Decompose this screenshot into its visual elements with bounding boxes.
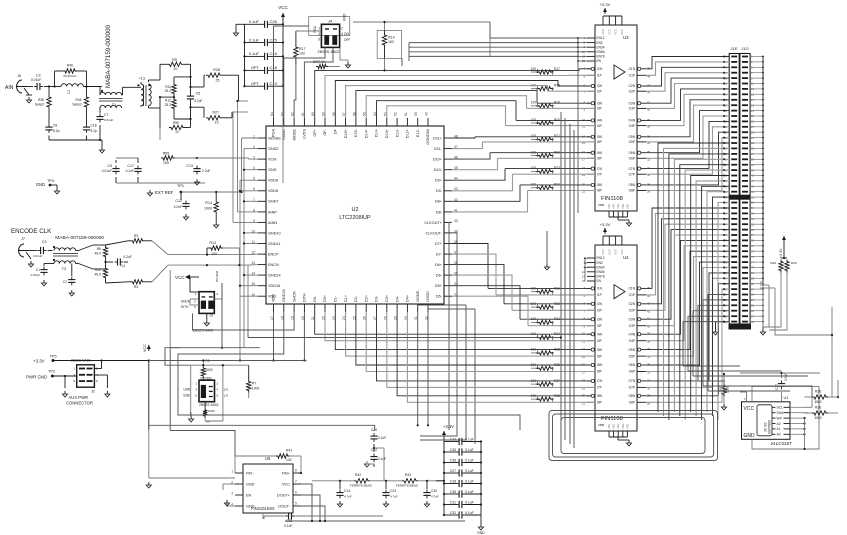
- svg-text:GND11: GND11: [268, 242, 280, 246]
- svg-text:100: 100: [531, 134, 537, 138]
- svg-text:4.7uF: 4.7uF: [390, 495, 398, 499]
- svg-text:T1: T1: [112, 103, 116, 107]
- svg-text:O3P: O3P: [629, 107, 635, 111]
- svg-text:VDD6: VDD6: [268, 189, 278, 193]
- svg-text:O5P: O5P: [629, 354, 635, 358]
- svg-text:VCC: VCC: [607, 28, 611, 35]
- svg-text:I8N: I8N: [597, 394, 603, 398]
- svg-text:VEE: VEE: [616, 204, 620, 209]
- svg-text:DOUT+: DOUT+: [277, 493, 291, 497]
- svg-text:EN: EN: [246, 493, 252, 497]
- svg-text:100E: 100E: [726, 386, 730, 393]
- svg-text:49: 49: [425, 112, 429, 116]
- svg-text:R41: R41: [286, 449, 292, 453]
- svg-text:D1-: D1-: [334, 295, 338, 302]
- svg-text:14: 14: [582, 347, 586, 351]
- svg-text:O5N: O5N: [628, 135, 635, 139]
- svg-text:14: 14: [582, 134, 586, 138]
- svg-text:D10+: D10+: [433, 158, 443, 162]
- svg-text:VDD6: VDD6: [268, 179, 278, 183]
- svg-text:O3N: O3N: [628, 101, 635, 105]
- svg-text:TP4: TP4: [47, 179, 54, 183]
- svg-text:VCC: VCC: [282, 482, 290, 486]
- svg-text:VEE: VEE: [621, 424, 625, 429]
- svg-text:OF-: OF-: [323, 128, 327, 135]
- svg-text:4: 4: [341, 32, 343, 36]
- svg-text:D13-: D13-: [395, 128, 399, 137]
- svg-text:O6N: O6N: [628, 151, 635, 155]
- svg-text:EN34: EN34: [597, 265, 605, 269]
- svg-text:VEE: VEE: [612, 424, 616, 429]
- svg-text:3: 3: [231, 492, 233, 496]
- svg-text:0.01uF: 0.01uF: [104, 118, 114, 122]
- svg-text:C4: C4: [121, 264, 125, 268]
- svg-text:EN56: EN56: [597, 50, 605, 54]
- svg-text:ENCP: ENCP: [268, 253, 279, 257]
- svg-text:C14: C14: [344, 489, 350, 493]
- svg-text:EN78: EN78: [597, 55, 605, 59]
- svg-text:5: 5: [318, 38, 320, 42]
- svg-text:C8: C8: [53, 124, 57, 128]
- svg-text:18: 18: [582, 378, 586, 382]
- svg-text:FERRITE BEAD: FERRITE BEAD: [350, 484, 373, 488]
- svg-text:0.1uF: 0.1uF: [465, 511, 474, 515]
- svg-text:O6N: O6N: [628, 363, 635, 367]
- svg-text:36: 36: [647, 134, 651, 138]
- svg-text:GND7: GND7: [268, 200, 279, 204]
- svg-text:1: 1: [318, 27, 320, 31]
- svg-text:R29: R29: [770, 261, 776, 265]
- svg-text:10: 10: [173, 67, 177, 71]
- svg-text:D3+: D3+: [385, 294, 389, 302]
- svg-text:0.1uF: 0.1uF: [378, 457, 386, 461]
- svg-text:O4P: O4P: [629, 124, 635, 128]
- svg-text:OFF: OFF: [344, 38, 350, 42]
- svg-text:R8: R8: [206, 420, 210, 424]
- svg-text:R42: R42: [355, 473, 361, 477]
- svg-text:+3.3V: +3.3V: [600, 222, 611, 227]
- svg-text:TP1: TP1: [177, 184, 184, 188]
- svg-text:C36: C36: [450, 458, 456, 462]
- svg-text:GND18: GND18: [282, 289, 286, 302]
- svg-text:O7N: O7N: [628, 379, 635, 383]
- svg-text:C30: C30: [431, 489, 437, 493]
- svg-text:FERRITE BEAD: FERRITE BEAD: [396, 484, 419, 488]
- svg-text:SHDN: SHDN: [181, 300, 191, 304]
- svg-text:ENCN: ENCN: [268, 263, 279, 267]
- svg-text:OGND60: OGND60: [426, 129, 430, 145]
- svg-text:U2: U2: [351, 207, 358, 213]
- svg-text:I5P: I5P: [597, 140, 602, 144]
- svg-text:O4N: O4N: [628, 332, 635, 336]
- svg-text:I5P: I5P: [597, 354, 602, 358]
- svg-text:D14-: D14-: [375, 128, 379, 137]
- svg-text:D12+: D12+: [406, 128, 410, 138]
- svg-text:U1: U1: [784, 395, 790, 400]
- svg-text:D2-: D2-: [354, 295, 358, 302]
- svg-text:C34: C34: [450, 437, 456, 441]
- svg-text:VCC: VCC: [744, 406, 755, 412]
- svg-text:2BS2S-9A02: 2BS2S-9A02: [318, 50, 340, 54]
- svg-text:J1E: J1E: [731, 46, 738, 51]
- svg-text:100: 100: [531, 101, 537, 105]
- svg-text:EN2: EN2: [597, 41, 603, 45]
- svg-text:R5: R5: [206, 359, 210, 363]
- svg-text:39: 39: [647, 332, 651, 336]
- svg-text:C17: C17: [127, 164, 134, 168]
- svg-text:O8P: O8P: [629, 189, 635, 193]
- svg-text:I8P: I8P: [597, 189, 602, 193]
- svg-text:50: 50: [414, 112, 418, 116]
- svg-text:I4N: I4N: [597, 332, 603, 336]
- svg-text:DITH: DITH: [181, 305, 189, 309]
- svg-text:C2: C2: [36, 74, 41, 78]
- svg-text:WP: WP: [777, 416, 783, 420]
- svg-text:R14: R14: [205, 201, 212, 205]
- svg-text:VBB: VBB: [598, 423, 604, 427]
- svg-text:O2P: O2P: [629, 89, 635, 93]
- svg-text:O7P: O7P: [629, 172, 635, 176]
- svg-text:D11-: D11-: [434, 147, 443, 151]
- svg-text:TP5: TP5: [50, 355, 57, 359]
- svg-text:D6-: D6-: [436, 274, 443, 278]
- svg-text:DF: DF: [334, 128, 338, 134]
- svg-text:C31: C31: [450, 500, 456, 504]
- svg-text:I3N: I3N: [597, 101, 603, 105]
- svg-text:100: 100: [211, 252, 217, 256]
- svg-text:EN56: EN56: [597, 270, 605, 274]
- svg-text:35: 35: [647, 363, 651, 367]
- svg-text:1: 1: [231, 470, 233, 474]
- svg-text:VEE: VEE: [621, 204, 625, 209]
- svg-text:GND: GND: [477, 531, 485, 535]
- svg-text:0.1uF: 0.1uF: [126, 169, 134, 173]
- svg-text:R6: R6: [97, 247, 101, 251]
- svg-text:VBB: VBB: [598, 203, 604, 207]
- svg-text:VEE: VEE: [625, 204, 629, 209]
- svg-text:24LC025T: 24LC025T: [771, 441, 793, 446]
- svg-text:GND: GND: [343, 13, 347, 21]
- svg-text:*T2: *T2: [139, 76, 146, 81]
- svg-text:I6P: I6P: [597, 157, 602, 161]
- svg-text:R5: R5: [172, 58, 177, 62]
- svg-text:MODE: MODE: [292, 129, 296, 141]
- svg-text:0.1uF: 0.1uF: [465, 500, 474, 504]
- svg-text:O7P: O7P: [629, 386, 635, 390]
- svg-text:ENE: ENE: [183, 393, 190, 397]
- svg-text:J7: J7: [21, 237, 25, 241]
- svg-text:EN: EN: [597, 279, 602, 283]
- svg-text:D8-: D8-: [436, 210, 443, 214]
- svg-text:ON: ON: [344, 32, 349, 36]
- svg-text:I7P: I7P: [597, 386, 602, 390]
- svg-text:I5N: I5N: [597, 135, 603, 139]
- svg-text:O7N: O7N: [628, 167, 635, 171]
- svg-text:R19: R19: [554, 101, 560, 105]
- svg-text:D15-: D15-: [354, 128, 358, 137]
- svg-text:I3P: I3P: [597, 107, 602, 111]
- svg-text:O4N: O4N: [628, 119, 635, 123]
- svg-text:I4P: I4P: [597, 124, 602, 128]
- svg-text:O5N: O5N: [628, 348, 635, 352]
- svg-text:AINN: AINN: [268, 221, 277, 225]
- svg-text:C2: C2: [63, 280, 67, 284]
- svg-text:D13+: D13+: [385, 128, 389, 138]
- svg-text:31: 31: [647, 378, 651, 382]
- svg-text:D4-: D4-: [395, 295, 399, 302]
- svg-text:VEE: VEE: [616, 424, 620, 429]
- svg-text:C26: C26: [270, 19, 278, 24]
- svg-text:EN12: EN12: [597, 256, 605, 260]
- svg-text:MABA-007159-000000: MABA-007159-000000: [55, 235, 104, 241]
- svg-text:4500: 4500: [814, 416, 821, 420]
- svg-text:R20: R20: [554, 118, 560, 122]
- svg-text:A2: A2: [777, 422, 781, 426]
- svg-text:45: 45: [647, 66, 651, 70]
- svg-text:OGND: OGND: [416, 290, 420, 302]
- svg-text:VDD: VDD: [272, 294, 276, 302]
- svg-text:R30: R30: [791, 261, 797, 265]
- svg-text:C13: C13: [186, 164, 193, 168]
- svg-text:D15+: D15+: [344, 128, 348, 138]
- svg-text:2BS2S-9A02: 2BS2S-9A02: [193, 329, 214, 333]
- svg-text:I1N: I1N: [597, 287, 603, 291]
- svg-text:D1+: D1+: [344, 294, 348, 302]
- svg-text:J2: J2: [91, 390, 95, 394]
- svg-text:O8N: O8N: [628, 183, 635, 187]
- svg-text:PGA: PGA: [272, 129, 276, 137]
- svg-text:O1N: O1N: [628, 287, 635, 291]
- svg-text:28: 28: [647, 182, 651, 186]
- svg-text:31: 31: [647, 166, 651, 170]
- svg-text:16: 16: [582, 363, 586, 367]
- svg-text:O4P: O4P: [629, 339, 635, 343]
- svg-text:USB: USB: [183, 388, 190, 392]
- svg-text:VCC: VCC: [607, 248, 611, 255]
- svg-text:U4: U4: [623, 255, 629, 260]
- svg-text:I4P: I4P: [597, 339, 602, 343]
- svg-text:CLKOUT+: CLKOUT+: [424, 221, 442, 225]
- svg-text:D14+: D14+: [364, 128, 368, 138]
- svg-text:T3: T3: [62, 267, 66, 271]
- svg-text:O2N: O2N: [628, 302, 635, 306]
- svg-text:TP2: TP2: [48, 370, 55, 374]
- svg-text:66.5ohms: 66.5ohms: [63, 74, 77, 78]
- svg-text:0.1uF: 0.1uF: [378, 436, 386, 440]
- svg-text:J3: J3: [209, 314, 213, 318]
- svg-text:MABA-007159-000000: MABA-007159-000000: [105, 24, 112, 88]
- svg-text:R27: R27: [213, 111, 220, 115]
- svg-text:I7N: I7N: [597, 167, 603, 171]
- svg-text:C1: C1: [36, 268, 40, 272]
- svg-text:R43: R43: [405, 473, 411, 477]
- svg-text:102: 102: [286, 458, 292, 462]
- svg-text:R18: R18: [554, 83, 560, 87]
- svg-text:FIN1108: FIN1108: [601, 416, 623, 422]
- svg-text:LVDS: LVDS: [303, 129, 307, 139]
- svg-text:R21: R21: [554, 134, 560, 138]
- svg-text:R13: R13: [209, 241, 216, 245]
- svg-text:C3: C3: [42, 240, 47, 244]
- svg-text:I6N: I6N: [597, 151, 603, 155]
- svg-text:AINP: AINP: [268, 210, 277, 214]
- svg-text:VCC: VCC: [620, 248, 624, 255]
- svg-text:C5: C5: [107, 164, 112, 168]
- svg-text:52: 52: [394, 112, 398, 116]
- svg-text:R26: R26: [815, 406, 821, 410]
- svg-text:D5+: D5+: [435, 284, 443, 288]
- svg-text:8.2p: 8.2p: [91, 129, 98, 133]
- svg-text:D2+: D2+: [364, 294, 368, 302]
- svg-text:28: 28: [647, 393, 651, 397]
- svg-text:FIN1101K8X: FIN1101K8X: [251, 506, 275, 511]
- svg-text:D9+: D9+: [435, 179, 443, 183]
- svg-text:0.1uF: 0.1uF: [249, 19, 260, 24]
- svg-text:R46: R46: [67, 64, 73, 68]
- svg-text:FIN-: FIN-: [246, 471, 254, 475]
- svg-text:D12-: D12-: [416, 128, 420, 137]
- svg-text:25: 25: [216, 79, 220, 83]
- svg-text:GND: GND: [744, 433, 756, 439]
- svg-text:102: 102: [388, 40, 394, 44]
- svg-text:VCC: VCC: [175, 275, 185, 280]
- svg-text:EN12: EN12: [597, 36, 605, 40]
- svg-text:41: 41: [647, 317, 651, 321]
- svg-text:EXT REF: EXT REF: [155, 190, 174, 195]
- svg-text:10: 10: [175, 130, 179, 134]
- svg-text:I4N: I4N: [597, 119, 603, 123]
- svg-text:0.01uF: 0.01uF: [33, 254, 43, 258]
- svg-text:R3: R3: [134, 234, 138, 238]
- svg-text:DITHER: DITHER: [215, 270, 219, 282]
- svg-text:GND14: GND14: [268, 274, 281, 278]
- svg-text:I2P: I2P: [597, 89, 602, 93]
- svg-text:D9-: D9-: [436, 189, 443, 193]
- svg-text:VEE: VEE: [607, 424, 611, 429]
- svg-text:D8+: D8+: [435, 200, 443, 204]
- svg-text:GND: GND: [268, 168, 277, 172]
- svg-text:C27: C27: [450, 469, 456, 473]
- svg-text:I1N: I1N: [597, 67, 603, 71]
- svg-text:VEE: VEE: [607, 204, 611, 209]
- svg-text:PWR GND: PWR GND: [26, 375, 47, 380]
- svg-text:Select: Select: [72, 103, 81, 107]
- svg-text:R7: R7: [252, 382, 256, 386]
- svg-text:U5: U5: [265, 456, 271, 461]
- svg-text:36: 36: [647, 347, 651, 351]
- svg-text:8.2p: 8.2p: [53, 129, 60, 133]
- svg-text:I3P: I3P: [597, 324, 602, 328]
- svg-text:0.1uF: 0.1uF: [249, 37, 260, 42]
- svg-text:10: 10: [215, 121, 219, 125]
- svg-text:39: 39: [647, 118, 651, 122]
- svg-text:2BS2S-9A02: 2BS2S-9A02: [199, 403, 219, 407]
- svg-text:I1P: I1P: [597, 74, 602, 78]
- svg-text:ENCODE CLK: ENCODE CLK: [11, 228, 52, 235]
- svg-text:0.01uF: 0.01uF: [102, 169, 112, 173]
- svg-text:C24: C24: [390, 489, 396, 493]
- svg-text:I3N: I3N: [597, 317, 603, 321]
- svg-text:20: 20: [582, 182, 586, 186]
- svg-text:AUX PWR: AUX PWR: [69, 395, 89, 400]
- svg-text:2.2uF: 2.2uF: [202, 169, 210, 173]
- svg-text:VCC: VCC: [278, 5, 288, 10]
- svg-text:U3: U3: [623, 35, 629, 40]
- svg-text:VDD16: VDD16: [268, 284, 280, 288]
- svg-text:0.01uF: 0.01uF: [31, 78, 41, 82]
- svg-text:0.2uF: 0.2uF: [123, 255, 131, 259]
- svg-text:0.01uF: 0.01uF: [31, 273, 41, 277]
- svg-text:SDA: SDA: [777, 411, 785, 415]
- svg-text:0.1uF: 0.1uF: [465, 479, 474, 483]
- svg-text:VCC: VCC: [601, 28, 605, 35]
- svg-text:DITH: DITH: [303, 293, 307, 302]
- svg-text:VCC: VCC: [601, 248, 605, 255]
- svg-text:+3.3V: +3.3V: [779, 248, 783, 258]
- svg-text:C28: C28: [450, 479, 456, 483]
- svg-text:1000: 1000: [206, 368, 213, 372]
- svg-text:51: 51: [404, 112, 408, 116]
- svg-text:OVDD: OVDD: [426, 291, 430, 302]
- svg-text:C6: C6: [196, 92, 201, 96]
- svg-text:20: 20: [582, 393, 586, 397]
- svg-text:O6P: O6P: [629, 157, 635, 161]
- svg-text:5: 5: [295, 502, 297, 506]
- svg-text:10: 10: [582, 118, 586, 122]
- svg-text:0.1uF: 0.1uF: [284, 524, 292, 528]
- svg-text:2/3: 2/3: [224, 388, 229, 392]
- svg-text:100: 100: [531, 118, 537, 122]
- svg-text:I6N: I6N: [597, 363, 603, 367]
- svg-text:+3.3V: +3.3V: [33, 359, 45, 364]
- svg-text:R10: R10: [95, 268, 101, 272]
- svg-text:40: 40: [454, 219, 458, 223]
- svg-text:I2N: I2N: [597, 302, 603, 306]
- svg-text:LTC2208IUP: LTC2208IUP: [339, 215, 371, 221]
- svg-text:OPT: OPT: [251, 65, 260, 70]
- svg-text:D11+: D11+: [433, 136, 443, 140]
- svg-text:O2P: O2P: [629, 309, 635, 313]
- svg-text:2: 2: [341, 27, 343, 31]
- svg-text:43: 43: [647, 84, 651, 88]
- svg-text:C32: C32: [450, 511, 456, 515]
- svg-text:D5-: D5-: [436, 295, 443, 299]
- svg-text:R55: R55: [163, 152, 170, 156]
- svg-text:18: 18: [582, 166, 586, 170]
- svg-text:D10-: D10-: [434, 168, 443, 172]
- svg-text:R50: R50: [173, 121, 179, 125]
- svg-text:FIN+: FIN+: [282, 471, 291, 475]
- svg-text:4.7uF: 4.7uF: [431, 495, 439, 499]
- svg-text:D6+: D6+: [435, 263, 443, 267]
- svg-text:2.2uF: 2.2uF: [174, 205, 182, 209]
- svg-text:VCC: VCC: [614, 28, 618, 35]
- svg-text:A1: A1: [777, 427, 781, 431]
- svg-text:4.7pF: 4.7pF: [194, 99, 202, 103]
- svg-text:OF+: OF+: [313, 128, 317, 136]
- svg-text:GND10: GND10: [268, 231, 281, 235]
- svg-text:2BS2S-9A02: 2BS2S-9A02: [71, 359, 91, 363]
- svg-text:C35: C35: [450, 448, 456, 452]
- svg-text:O2N: O2N: [628, 84, 635, 88]
- svg-text:VEE: VEE: [625, 424, 629, 429]
- svg-text:EN: EN: [597, 59, 602, 63]
- svg-text:R4: R4: [134, 285, 138, 289]
- svg-text:O1P: O1P: [629, 293, 635, 297]
- svg-text:D0+: D0+: [323, 294, 327, 302]
- svg-text:R14: R14: [388, 36, 395, 40]
- svg-text:GND: GND: [36, 182, 45, 187]
